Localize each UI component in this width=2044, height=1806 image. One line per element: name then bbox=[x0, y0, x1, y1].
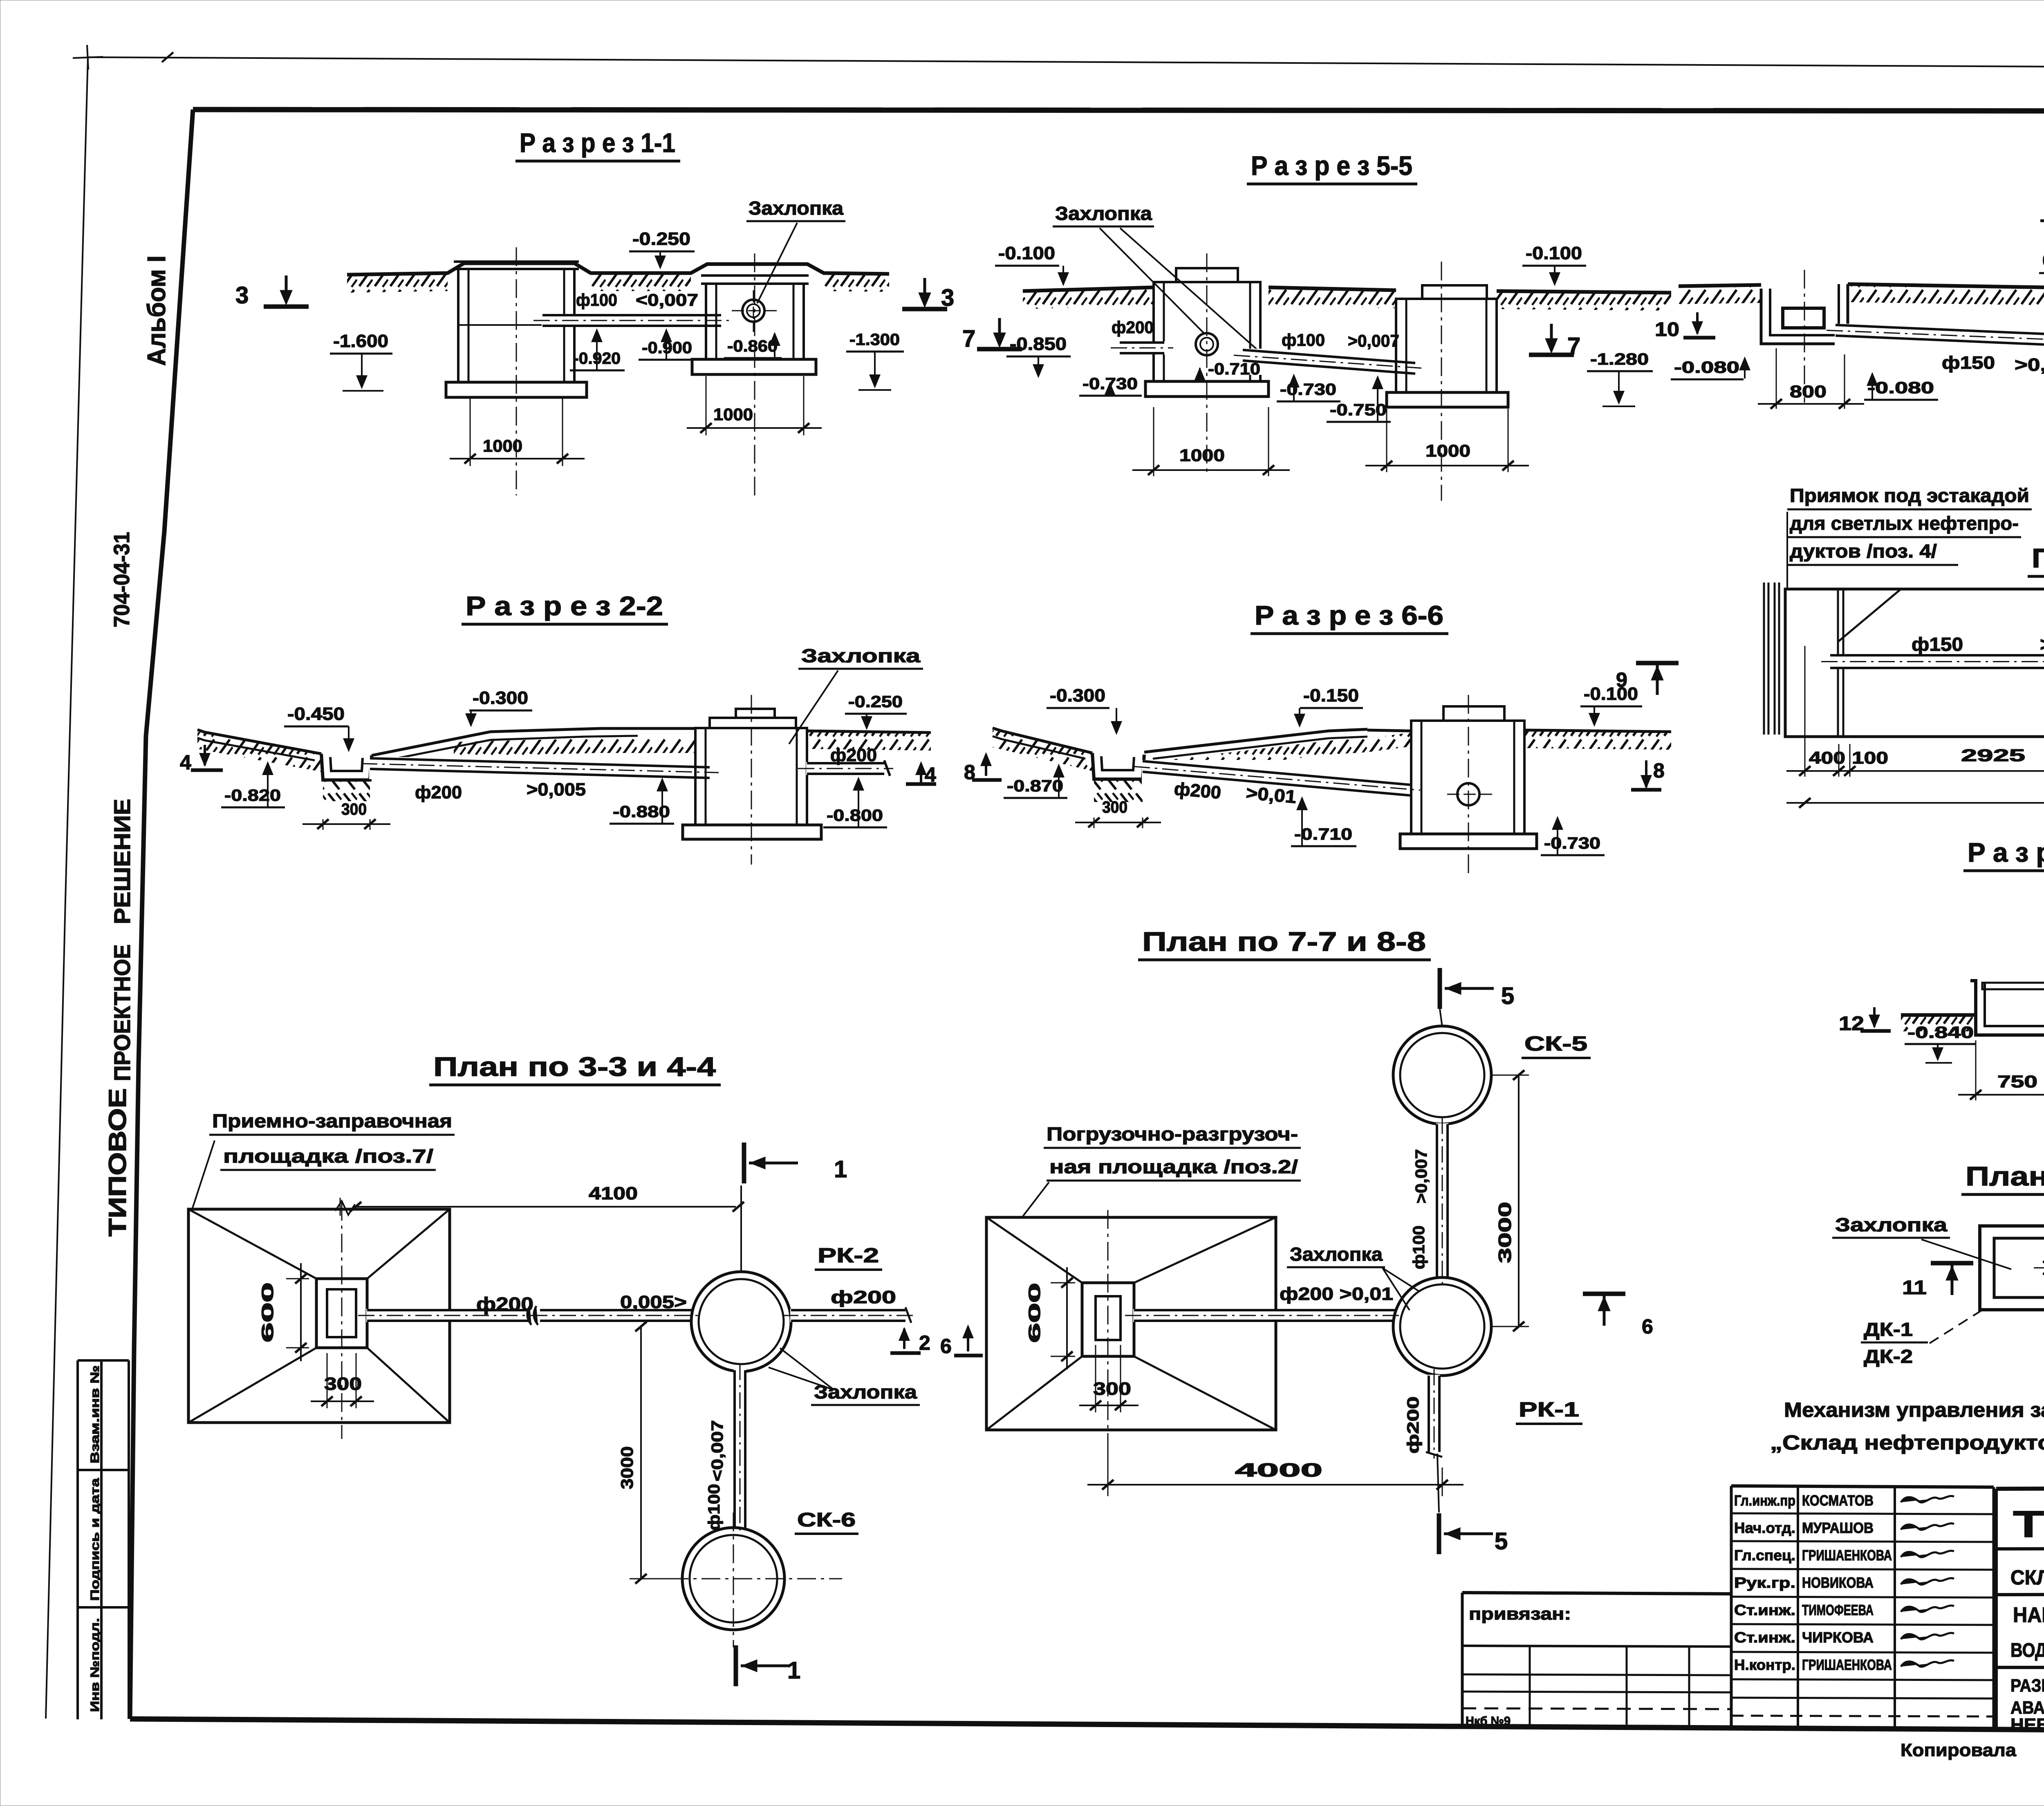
tick on top border bbox=[162, 52, 173, 62]
well circle RK-1 bbox=[1393, 1277, 1491, 1376]
svg-text:-0.860: -0.860 bbox=[727, 337, 778, 355]
pit rectangle P10-10 bbox=[1785, 589, 2044, 737]
marker 1 top P3-3 bbox=[742, 1143, 746, 1183]
svg-text:-0.820: -0.820 bbox=[224, 786, 281, 804]
centerline chamber R6-6 bbox=[1468, 695, 1469, 877]
svg-text:1: 1 bbox=[834, 1156, 847, 1183]
svg-text:600: 600 bbox=[1026, 1283, 1044, 1343]
svg-text:ПРОЕКТНОЕ: ПРОЕКТНОЕ bbox=[109, 944, 135, 1081]
ground line R1-1 bbox=[347, 263, 889, 275]
svg-text:Захлопка: Захлопка bbox=[749, 197, 843, 219]
svg-text:Нкб №9: Нкб №9 bbox=[1466, 1714, 1511, 1728]
hatch R1-1 bbox=[347, 274, 448, 293]
svg-text:ф150: ф150 bbox=[1912, 634, 1963, 655]
svg-text:План по 10-10: План по 10-10 bbox=[2032, 543, 2044, 573]
svg-text:7: 7 bbox=[962, 325, 975, 352]
svg-text:ф100: ф100 bbox=[1282, 330, 1325, 350]
svg-text:-0.150: -0.150 bbox=[1303, 686, 1359, 706]
svg-text:ГРИШАЕНКОВА: ГРИШАЕНКОВА bbox=[1802, 1656, 1892, 1673]
dim 750 bbox=[1975, 1040, 1977, 1100]
trough R11-11 bbox=[1970, 981, 2044, 1035]
svg-text:КОСМАТОВ: КОСМАТОВ bbox=[1802, 1492, 1874, 1509]
svg-text:Альбом I: Альбом I bbox=[143, 255, 171, 366]
svg-text:СКЛАД НЕФТЕПРОДУКТОВ ЕМК. 1ТЫС: СКЛАД НЕФТЕПРОДУКТОВ ЕМК. 1ТЫС. КУБ.М bbox=[2010, 1566, 2044, 1589]
big title box frame bbox=[1995, 1489, 1998, 1730]
svg-text:-0.100: -0.100 bbox=[998, 243, 1055, 263]
svg-text:300: 300 bbox=[341, 800, 367, 818]
svg-text:РК-1: РК-1 bbox=[1519, 1398, 1579, 1421]
svg-text:9: 9 bbox=[1616, 668, 1627, 691]
platform centerline P3-3 bbox=[341, 1202, 343, 1439]
svg-text:-1.280: -1.280 bbox=[1590, 350, 1649, 368]
svg-text:-0.730: -0.730 bbox=[1280, 381, 1336, 399]
svg-text:Р а з р е з 5-5: Р а з р е з 5-5 bbox=[1251, 150, 1412, 181]
square trough P12-12 bbox=[1980, 1226, 2044, 1310]
hatch R5-5 bbox=[1023, 288, 1154, 309]
marker 8 right bbox=[1631, 788, 1661, 792]
centerline left chamber R1-1 bbox=[516, 247, 517, 495]
svg-text:-1.600: -1.600 bbox=[333, 331, 388, 351]
center box P3-3 bbox=[316, 1279, 367, 1348]
signatures bbox=[1901, 1496, 1954, 1503]
svg-text:Приемно-заправочная: Приемно-заправочная bbox=[212, 1110, 452, 1132]
right chamber R1-1 bbox=[706, 284, 804, 359]
ground R2-2 right of chamber bbox=[807, 731, 931, 733]
svg-text:ф100: ф100 bbox=[576, 290, 617, 309]
svg-text:-0.300: -0.300 bbox=[1050, 686, 1105, 706]
svg-text:800: 800 bbox=[1790, 382, 1827, 401]
svg-text:>0,008: >0,008 bbox=[2040, 634, 2044, 655]
label slope 0.01 R6-6 bbox=[1245, 783, 1297, 807]
svg-text:<0,007: <0,007 bbox=[636, 290, 698, 309]
svg-text:1: 1 bbox=[787, 1657, 800, 1684]
ground R2-2 right of trough bbox=[372, 728, 695, 755]
svg-text:>0,005: >0,005 bbox=[527, 780, 586, 800]
ground line R5-5 bbox=[1023, 287, 1154, 291]
svg-text:3000: 3000 bbox=[1495, 1202, 1515, 1263]
svg-text:ф200: ф200 bbox=[1112, 318, 1154, 337]
marker 5 top P7-7 bbox=[1438, 968, 1442, 1009]
bottom pipe f200 P7-7 bbox=[1428, 1375, 1440, 1453]
svg-text:НАРУЖНЫЕ СЕТИ: НАРУЖНЫЕ СЕТИ bbox=[2013, 1603, 2044, 1627]
svg-text:СК-5: СК-5 bbox=[1524, 1032, 1587, 1055]
svg-text:ТИМОФЕЕВА: ТИМОФЕЕВА bbox=[1802, 1602, 1874, 1618]
platform diagonals P3-3 bbox=[188, 1209, 316, 1279]
valve circle R5-5 bbox=[1196, 333, 1218, 355]
center box P7-7 bbox=[1082, 1283, 1134, 1356]
svg-text:600: 600 bbox=[259, 1282, 277, 1342]
dim 800 bbox=[1776, 348, 1777, 409]
svg-text:1000: 1000 bbox=[1425, 441, 1470, 460]
svg-text:-0.250: -0.250 bbox=[848, 693, 903, 711]
svg-text:1000: 1000 bbox=[483, 436, 522, 455]
left pit R9-9 bbox=[1761, 284, 1848, 344]
trough R6-6 bbox=[1092, 753, 1144, 779]
svg-text:Захлопка: Захлопка bbox=[1055, 203, 1152, 224]
marker 4 right bbox=[906, 782, 936, 786]
pipe f100 R1-1 bbox=[542, 314, 722, 327]
svg-text:ГРИШАЕНКОВА: ГРИШАЕНКОВА bbox=[1802, 1547, 1892, 1564]
svg-text:ТИПОВОЕ: ТИПОВОЕ bbox=[104, 1088, 131, 1237]
inner thick frame bbox=[193, 110, 2044, 111]
ground line R11-11 bbox=[1901, 1013, 1977, 1017]
svg-text:НЕВОЙ КАНАЛИЗАЦИИ: НЕВОЙ КАНАЛИЗАЦИИ bbox=[2010, 1714, 2044, 1735]
svg-text:ф100: ф100 bbox=[1410, 1226, 1428, 1269]
vertical pipe SK-5 to RK-1 bbox=[1436, 1123, 1448, 1279]
svg-text:Р а з р е з 11-11: Р а з р е з 11-11 bbox=[1968, 837, 2044, 867]
svg-text:Погрузочно-разгрузоч-: Погрузочно-разгрузоч- bbox=[1047, 1123, 1298, 1145]
svg-text:„Склад нефтепродуктов емк.: „Склад нефтепродуктов емк. 500 куб. м“ bbox=[1770, 1431, 2044, 1454]
valve circle R6-6 bbox=[1457, 783, 1479, 805]
trough R2-2 bbox=[321, 754, 372, 780]
svg-text:Гл.инж.пр: Гл.инж.пр bbox=[1734, 1492, 1795, 1509]
svg-text:>0,007: >0,007 bbox=[1412, 1149, 1430, 1203]
left stamp boxes bbox=[76, 1360, 79, 1719]
label f200 R6-6 bbox=[1173, 779, 1222, 803]
svg-text:750: 750 bbox=[1997, 1072, 2037, 1091]
svg-text:-0.450: -0.450 bbox=[287, 704, 345, 724]
svg-text:План по 12-12: План по 12-12 bbox=[1966, 1161, 2044, 1191]
left pipe stub f200 R5-5 bbox=[1119, 341, 1165, 354]
svg-text:100: 100 bbox=[1852, 748, 1888, 767]
svg-text:Инв №подл.: Инв №подл. bbox=[88, 1618, 102, 1712]
svg-text:2: 2 bbox=[919, 1331, 930, 1354]
dims row P10-10 bbox=[1804, 646, 1806, 777]
svg-text:Н.контр.: Н.контр. bbox=[1734, 1656, 1795, 1673]
svg-text:ф200: ф200 bbox=[476, 1293, 533, 1315]
svg-text:ф200 >0,01: ф200 >0,01 bbox=[1280, 1284, 1393, 1304]
centerline RK-2 vertical bbox=[740, 1185, 742, 1271]
svg-text:Гл.спец.: Гл.спец. bbox=[1734, 1547, 1795, 1564]
svg-text:8: 8 bbox=[1653, 759, 1665, 782]
platform square P3-3 bbox=[188, 1209, 450, 1423]
platform square P7-7 bbox=[986, 1217, 1276, 1430]
svg-text:ф200: ф200 bbox=[830, 745, 877, 765]
svg-text:4000: 4000 bbox=[1235, 1459, 1322, 1481]
estacade columns P10-10 bbox=[1763, 583, 1765, 735]
svg-text:ф200: ф200 bbox=[831, 1287, 896, 1307]
well circle SK-6 bbox=[682, 1528, 784, 1630]
dim 4100 P3-3 bbox=[340, 1198, 341, 1216]
svg-text:Захлопка: Захлопка bbox=[801, 645, 921, 666]
svg-text:ф200: ф200 bbox=[1404, 1396, 1422, 1454]
centerline right chamber R5-5 bbox=[1441, 262, 1442, 501]
svg-text:СК-6: СК-6 bbox=[797, 1509, 856, 1531]
svg-text:-0.080: -0.080 bbox=[1867, 379, 1934, 397]
ground line R9-9 bbox=[1679, 285, 1761, 286]
platform centerline P7-7 bbox=[1107, 1210, 1109, 1439]
dim 600 P3-3 bbox=[286, 1278, 309, 1279]
svg-text:6: 6 bbox=[940, 1335, 952, 1358]
svg-text:300: 300 bbox=[1102, 798, 1127, 816]
svg-text:Рук.гр.: Рук.гр. bbox=[1734, 1574, 1795, 1591]
svg-text:2925: 2925 bbox=[1961, 746, 2025, 765]
right pipe stub RK-2 bbox=[790, 1309, 906, 1322]
hatch R2-2 bbox=[197, 732, 321, 772]
ground profile R2-2 left berm bbox=[197, 730, 321, 754]
svg-text:11: 11 bbox=[1902, 1277, 1927, 1299]
hatch R9-9 bbox=[1679, 286, 1761, 304]
hatch R6-6 bbox=[993, 730, 1092, 771]
svg-text:площадка /поз.7/: площадка /поз.7/ bbox=[223, 1145, 433, 1167]
well circle RK-2 bbox=[691, 1272, 791, 1371]
svg-text:НОВИКОВА: НОВИКОВА bbox=[1802, 1574, 1874, 1591]
dim 1000 right R1-1 bbox=[706, 376, 707, 435]
svg-text:Р а з р е з 1-1: Р а з р е з 1-1 bbox=[520, 128, 675, 158]
dim 3000 P3-3 bbox=[640, 1326, 642, 1579]
dim 1000 right R5-5 bbox=[1386, 409, 1387, 472]
title block names table frame bbox=[1731, 1486, 1994, 1487]
long pipe f150 R9-9 bbox=[1835, 324, 2044, 354]
break squiggle top P3-3 bbox=[335, 1201, 355, 1215]
svg-text:для светлых нефтепро-: для светлых нефтепро- bbox=[1790, 513, 2019, 534]
svg-text:План по 3-3 и 4-4: План по 3-3 и 4-4 bbox=[433, 1051, 716, 1082]
svg-text:-1.300: -1.300 bbox=[849, 331, 900, 349]
svg-text:1000: 1000 bbox=[1179, 446, 1225, 465]
right chamber R6-6 bbox=[1443, 706, 1504, 721]
svg-text:5: 5 bbox=[1501, 983, 1514, 1009]
svg-text:Ст.инж.: Ст.инж. bbox=[1734, 1629, 1795, 1646]
right pipe stub R2-2 bbox=[806, 762, 885, 775]
svg-text:РК-2: РК-2 bbox=[818, 1244, 879, 1267]
svg-text:-0.710: -0.710 bbox=[1208, 360, 1260, 378]
svg-text:РАЗРЕЗЫ ПО ТРУБОПРОВОДАМ: РАЗРЕЗЫ ПО ТРУБОПРОВОДАМ bbox=[2010, 1676, 2044, 1696]
trough cover R11-11 bbox=[1982, 983, 2044, 989]
svg-text:4: 4 bbox=[180, 751, 191, 774]
dim 1000 left R1-1 bbox=[470, 399, 471, 466]
centerline pit R9-9 bbox=[1804, 270, 1805, 403]
pipe f200 P3-3 right segment bbox=[539, 1309, 693, 1322]
svg-text:Механизм управления захлопко: Механизм управления захлопкой см. тип. п… bbox=[1784, 1398, 2044, 1421]
svg-text:5: 5 bbox=[1495, 1528, 1508, 1555]
svg-text:ф150: ф150 bbox=[1942, 353, 1995, 373]
left chamber R1-1 bbox=[458, 269, 574, 382]
svg-text:3000: 3000 bbox=[617, 1446, 637, 1489]
svg-text:План по 7-7 и 8-8: План по 7-7 и 8-8 bbox=[1142, 926, 1426, 957]
svg-text:Приямок под эстакадой: Приямок под эстакадой bbox=[1790, 485, 2029, 506]
svg-text:дуктов /поз. 4/: дуктов /поз. 4/ bbox=[1790, 540, 1937, 562]
ground profile R6-6 left berm bbox=[993, 728, 1092, 753]
svg-text:6: 6 bbox=[1642, 1315, 1653, 1338]
centerline left chamber R5-5 bbox=[1206, 253, 1208, 476]
leader to platform P7-7 bbox=[1022, 1182, 1049, 1217]
svg-text:-0.800: -0.800 bbox=[827, 807, 883, 825]
privyazan box bbox=[1462, 1593, 1731, 1594]
corner tick top-left bbox=[73, 57, 103, 58]
svg-text:-0.840: -0.840 bbox=[1907, 1024, 1974, 1042]
pipe f200 P3-3 left segment bbox=[366, 1309, 529, 1322]
svg-text:ТП 704-04-31 -НВК: ТП 704-04-31 -НВК bbox=[2013, 1504, 2044, 1545]
svg-text:ф100: ф100 bbox=[705, 1484, 723, 1530]
svg-text:<0,007: <0,007 bbox=[708, 1420, 726, 1481]
svg-text:Взам.инв №: Взам.инв № bbox=[88, 1365, 102, 1463]
svg-text:Копировала: Копировала bbox=[1901, 1740, 2017, 1760]
svg-text:ДК-1: ДК-1 bbox=[1864, 1319, 1913, 1340]
leader line priyamok bbox=[1786, 512, 1788, 589]
svg-text:Захлопка: Захлопка bbox=[814, 1381, 917, 1403]
pipe f150 P10-10 bbox=[1829, 654, 2044, 669]
svg-text:-0.100: -0.100 bbox=[1526, 243, 1582, 263]
svg-text:-0.100: -0.100 bbox=[1584, 684, 1638, 704]
svg-text:ф200: ф200 bbox=[1173, 779, 1222, 803]
svg-text:РЕШЕНИЕ: РЕШЕНИЕ bbox=[109, 799, 135, 924]
svg-text:Захлопка: Захлопка bbox=[1290, 1244, 1383, 1265]
svg-text:МУРАШОВ: МУРАШОВ bbox=[1802, 1519, 1874, 1536]
svg-text:ДК-2: ДК-2 bbox=[1864, 1346, 1913, 1367]
svg-text:12: 12 bbox=[1839, 1013, 1864, 1035]
vertical pipe f100 P3-3 bbox=[734, 1369, 746, 1530]
svg-text:Ст.инж.: Ст.инж. bbox=[1734, 1602, 1795, 1618]
pavement R6-6 bbox=[1144, 729, 1367, 752]
svg-text:704-04-31: 704-04-31 bbox=[110, 532, 134, 627]
centerline right chamber R1-1 bbox=[754, 253, 755, 498]
marker 2 right P3-3 bbox=[903, 1329, 905, 1349]
dim 4000 P7-7 bbox=[1107, 1439, 1109, 1496]
right chamber R2-2 bbox=[736, 709, 775, 718]
ground R6-6 mid bbox=[1367, 730, 1411, 731]
marker 1 bottom P3-3 bbox=[734, 1645, 738, 1686]
svg-text:1000: 1000 bbox=[713, 405, 753, 424]
svg-text:Захлопка: Захлопка bbox=[1835, 1214, 1948, 1235]
leader to platform P3-3 bbox=[192, 1141, 215, 1209]
pipe P12-12 bbox=[2042, 1261, 2044, 1275]
dim 600 P7-7 bbox=[1051, 1282, 1075, 1284]
diagonal P10-10 bbox=[1838, 589, 1901, 642]
svg-text:400: 400 bbox=[1809, 748, 1845, 767]
svg-text:>0,007: >0,007 bbox=[1348, 331, 1399, 350]
svg-text:3: 3 bbox=[235, 282, 249, 309]
svg-text:-0.710: -0.710 bbox=[1294, 825, 1352, 843]
svg-text:4100: 4100 bbox=[589, 1183, 638, 1203]
pipe f100 R5-5 bbox=[1242, 349, 1416, 375]
platform diagonals P7-7 bbox=[986, 1217, 1082, 1283]
right chamber R5-5 bbox=[1422, 285, 1487, 299]
svg-text:0.430: 0.430 bbox=[2042, 251, 2044, 271]
svg-text:Р а з р е з 6-6: Р а з р е з 6-6 bbox=[1255, 600, 1443, 630]
zahlopka valve circle R1-1 bbox=[742, 300, 764, 322]
centerline chamber R2-2 bbox=[751, 695, 752, 865]
svg-text:Подпись и дата: Подпись и дата bbox=[88, 1478, 102, 1601]
svg-text:ВОДОПРОВОДА И КАНАЛИЗАЦИИ: ВОДОПРОВОДА И КАНАЛИЗАЦИИ bbox=[2010, 1640, 2044, 1661]
dim 1000 left R5-5 bbox=[1153, 407, 1154, 476]
dim 3000 P7-7 bbox=[1491, 1075, 1529, 1076]
pipe f200 R6-6 bbox=[1142, 760, 1412, 797]
section marker 7 right R5-5 bbox=[1529, 353, 1574, 357]
svg-text:-0.870: -0.870 bbox=[1007, 777, 1063, 795]
svg-text:>0,008: >0,008 bbox=[2015, 355, 2044, 375]
svg-text:Нач.отд.: Нач.отд. bbox=[1734, 1519, 1795, 1536]
overall dim row P10-10 bbox=[1786, 802, 2044, 804]
svg-text:4: 4 bbox=[925, 763, 936, 786]
svg-text:-0.250: -0.250 bbox=[632, 229, 690, 249]
section marker 3 right bbox=[902, 307, 947, 311]
outer thin border bbox=[88, 57, 2044, 69]
svg-text:7: 7 bbox=[1567, 333, 1580, 359]
svg-text:ная площадка /поз.2/: ная площадка /поз.2/ bbox=[1049, 1156, 1298, 1177]
hatch R11-11 bbox=[1901, 1016, 1977, 1031]
svg-text:3: 3 bbox=[941, 285, 954, 311]
pipe f200 R2-2 bbox=[369, 757, 710, 779]
svg-text:-0.730: -0.730 bbox=[1544, 834, 1600, 852]
ground R6-6 right bbox=[1524, 730, 1671, 732]
svg-text:-0.300: -0.300 bbox=[473, 688, 528, 708]
svg-text:Р а з р е з 2-2: Р а з р е з 2-2 bbox=[466, 591, 663, 621]
marker T6 right P7-7 bbox=[1583, 1292, 1625, 1296]
svg-text:ЧИРКОВА: ЧИРКОВА bbox=[1802, 1629, 1874, 1646]
marker 5 bottom P7-7 bbox=[1437, 1454, 1439, 1512]
pipe f200 P7-7 bbox=[1133, 1309, 1396, 1322]
svg-text:10: 10 bbox=[1655, 319, 1679, 341]
svg-text:привязан:: привязан: bbox=[1469, 1604, 1571, 1623]
well circle SK-5 bbox=[1393, 1026, 1491, 1124]
left chamber R5-5 bbox=[1176, 268, 1238, 282]
svg-text:0,005>: 0,005> bbox=[620, 1292, 687, 1312]
svg-text:ф200: ф200 bbox=[415, 782, 462, 802]
svg-text:-0.080: -0.080 bbox=[1674, 359, 1739, 376]
pipe break P3-3 bbox=[527, 1306, 531, 1325]
centerlines SK-6 bbox=[638, 1578, 842, 1580]
svg-text:300: 300 bbox=[1093, 1379, 1131, 1399]
